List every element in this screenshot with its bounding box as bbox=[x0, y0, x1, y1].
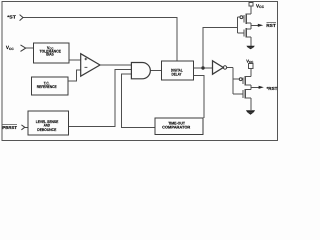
svg-text:COMPARATOR: COMPARATOR bbox=[162, 125, 190, 130]
svg-text:BIAS: BIAS bbox=[46, 52, 54, 57]
svg-text:PBRST: PBRST bbox=[2, 125, 17, 130]
svg-text:RST: RST bbox=[266, 23, 276, 28]
svg-text:DELAY: DELAY bbox=[172, 72, 182, 77]
svg-text:VCC: VCC bbox=[256, 3, 265, 9]
svg-text:*RST: *RST bbox=[267, 86, 278, 91]
svg-text:VCC: VCC bbox=[6, 45, 15, 51]
svg-text:REFERENCE: REFERENCE bbox=[37, 84, 57, 89]
svg-text:VCC: VCC bbox=[246, 58, 254, 64]
svg-text:DEBOUNCE: DEBOUNCE bbox=[37, 127, 56, 132]
svg-text:*ST: *ST bbox=[7, 15, 16, 20]
